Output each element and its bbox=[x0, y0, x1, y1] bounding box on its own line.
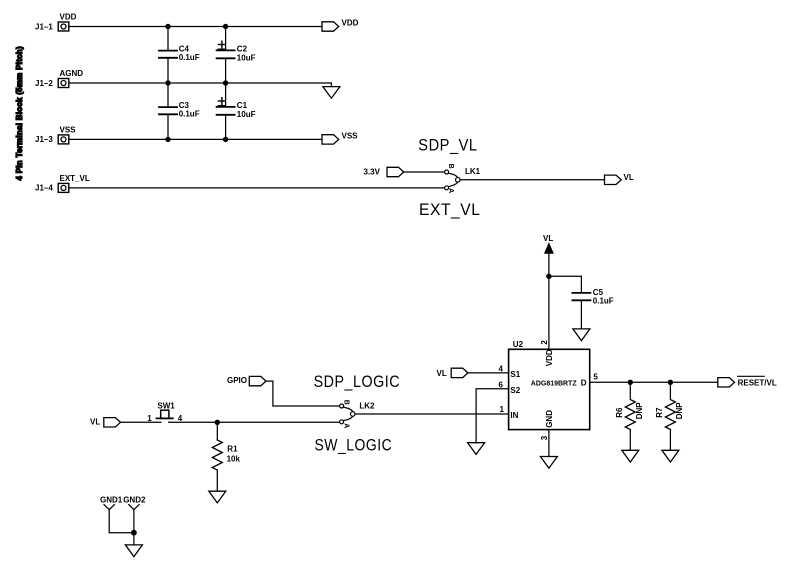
svg-text:DNP: DNP bbox=[635, 402, 644, 420]
junction bbox=[165, 137, 170, 142]
wire LK2 to IN pin bbox=[355, 413, 509, 415]
svg-text:3.3V: 3.3V bbox=[364, 168, 381, 177]
capacitor C1 bbox=[217, 83, 256, 139]
ground R1 bbox=[209, 491, 226, 503]
svg-text:LK1: LK1 bbox=[465, 167, 481, 176]
jumper LK2 bbox=[340, 400, 375, 429]
svg-text:5: 5 bbox=[593, 372, 598, 381]
wire VL to U2 VDD pin bbox=[548, 253, 550, 349]
svg-text:SW1: SW1 bbox=[157, 401, 175, 410]
capacitor C2 bbox=[217, 27, 256, 84]
capacitor C3 bbox=[159, 83, 200, 139]
svg-text:GPIO: GPIO bbox=[227, 376, 247, 385]
wire J1-3 to VSS flag bbox=[69, 138, 322, 140]
resistor R1 bbox=[212, 422, 240, 491]
svg-text:4 Pin Terminal Block (5mm Pitc: 4 Pin Terminal Block (5mm Pitch) bbox=[15, 46, 24, 180]
svg-text:10uF: 10uF bbox=[237, 53, 256, 62]
flag VL input bbox=[451, 368, 468, 377]
svg-text:GND: GND bbox=[545, 410, 554, 428]
wire J1-2 to ground bbox=[69, 83, 332, 87]
resistor R7 bbox=[655, 382, 684, 450]
svg-text:0.1uF: 0.1uF bbox=[179, 110, 200, 119]
svg-text:10uF: 10uF bbox=[237, 110, 256, 119]
svg-text:J1–4: J1–4 bbox=[35, 184, 53, 193]
svg-text:R6: R6 bbox=[615, 407, 624, 418]
resistor R6 bbox=[615, 382, 644, 450]
svg-text:EXT_VL: EXT_VL bbox=[60, 174, 90, 183]
svg-text:A: A bbox=[447, 188, 454, 193]
connector J1-4 bbox=[35, 183, 69, 192]
flag VDD bbox=[322, 18, 359, 31]
junction bbox=[165, 24, 170, 29]
pin 5 D bbox=[581, 372, 599, 387]
svg-text:J1–3: J1–3 bbox=[35, 135, 53, 144]
svg-text:U2: U2 bbox=[513, 340, 524, 349]
svg-text:2: 2 bbox=[540, 340, 549, 345]
svg-text:3: 3 bbox=[540, 435, 549, 440]
ground GND1/GND2 bbox=[125, 545, 142, 557]
svg-text:SDP_VL: SDP_VL bbox=[418, 136, 477, 154]
junction bbox=[546, 274, 551, 279]
junction bbox=[215, 420, 220, 425]
junction bbox=[668, 380, 673, 385]
svg-text:VL: VL bbox=[543, 234, 553, 243]
junction bbox=[165, 80, 170, 85]
wire J1-1 to VDD flag bbox=[69, 26, 322, 28]
wire LK1 to VL flag bbox=[460, 179, 604, 181]
svg-text:VL: VL bbox=[90, 417, 100, 426]
pin 3 GND bbox=[540, 410, 554, 440]
svg-text:LK2: LK2 bbox=[359, 402, 375, 411]
svg-text:VDD: VDD bbox=[545, 349, 554, 366]
svg-text:0.1uF: 0.1uF bbox=[593, 297, 614, 306]
svg-text:VDD: VDD bbox=[342, 18, 359, 27]
junction bbox=[223, 137, 228, 142]
wire J1-4 to LK1 pin A bbox=[69, 187, 445, 189]
svg-text:1: 1 bbox=[500, 405, 505, 414]
flag VL bbox=[605, 173, 634, 184]
svg-text:4: 4 bbox=[499, 364, 504, 373]
svg-text:B: B bbox=[447, 164, 454, 169]
wire D pin to RESET flag bbox=[590, 381, 718, 383]
svg-text:A: A bbox=[342, 423, 349, 428]
pin 4 S1 bbox=[499, 364, 521, 379]
wire GPIO to LK2 pin B bbox=[266, 381, 340, 406]
capacitor C4 bbox=[159, 27, 200, 84]
junction bbox=[628, 380, 633, 385]
capacitor C5 bbox=[572, 288, 613, 329]
wire junction to C5 bbox=[549, 276, 582, 293]
svg-text:S2: S2 bbox=[510, 386, 520, 395]
flag GPIO bbox=[249, 376, 266, 385]
svg-text:VSS: VSS bbox=[342, 131, 359, 140]
svg-text:J1–1: J1–1 bbox=[35, 22, 53, 31]
svg-text:DNP: DNP bbox=[675, 402, 684, 420]
svg-text:R1: R1 bbox=[227, 445, 238, 454]
pin 6 S2 bbox=[499, 380, 521, 395]
junction bbox=[223, 80, 228, 85]
wire SW1 to LK2 pin A bbox=[169, 421, 340, 423]
pin GND2 bbox=[129, 505, 139, 545]
svg-text:GND2: GND2 bbox=[123, 495, 146, 504]
svg-text:0.1uF: 0.1uF bbox=[179, 53, 200, 62]
flag RESET/VL bbox=[718, 376, 777, 387]
svg-text:IN: IN bbox=[510, 411, 518, 420]
svg-text:J1–2: J1–2 bbox=[35, 79, 53, 88]
svg-text:C1: C1 bbox=[237, 101, 248, 110]
ground R7 bbox=[662, 450, 679, 462]
flag 3.3V bbox=[387, 167, 404, 176]
svg-text:10k: 10k bbox=[227, 455, 241, 464]
svg-text:VL: VL bbox=[624, 173, 634, 182]
svg-text:6: 6 bbox=[499, 380, 504, 389]
ground below C5 bbox=[573, 329, 590, 341]
svg-text:VL: VL bbox=[437, 369, 447, 378]
svg-text:GND1: GND1 bbox=[100, 495, 123, 504]
svg-text:ADG819BRTZ: ADG819BRTZ bbox=[531, 378, 577, 387]
ground U2 bbox=[540, 457, 557, 469]
svg-text:D: D bbox=[581, 379, 587, 388]
junction bbox=[223, 24, 228, 29]
wire VL to SW1 bbox=[121, 421, 162, 423]
power VL arrow bbox=[543, 234, 553, 253]
connector J1-1 bbox=[35, 22, 69, 31]
svg-text:AGND: AGND bbox=[60, 69, 84, 78]
ground S2 bbox=[468, 443, 485, 455]
svg-text:EXT_VL: EXT_VL bbox=[419, 201, 481, 219]
wire 3.3V to LK1 pin B bbox=[404, 171, 445, 173]
svg-text:C2: C2 bbox=[237, 45, 248, 54]
ground AGND bbox=[323, 87, 340, 99]
wire U2 GND pin to ground bbox=[548, 430, 550, 457]
switch SW1 bbox=[147, 401, 183, 423]
svg-text:4: 4 bbox=[178, 414, 183, 423]
svg-text:1: 1 bbox=[147, 414, 152, 423]
flag VL input left bbox=[104, 418, 121, 427]
svg-text:RESET/VL: RESET/VL bbox=[738, 378, 777, 387]
pin GND1 bbox=[104, 505, 134, 533]
connector J1-2 bbox=[35, 79, 69, 88]
svg-text:R7: R7 bbox=[655, 407, 664, 418]
wire VL to S1 bbox=[468, 372, 509, 374]
wire S2 to ground bbox=[476, 389, 509, 443]
jumper LK1 bbox=[445, 164, 481, 194]
flag VSS bbox=[322, 131, 358, 144]
svg-text:VSS: VSS bbox=[60, 125, 77, 134]
svg-text:VDD: VDD bbox=[60, 13, 77, 22]
svg-text:SW_LOGIC: SW_LOGIC bbox=[315, 436, 393, 454]
pin 1 IN bbox=[500, 405, 519, 420]
op IC U2 ADG819BRTZ bbox=[509, 340, 590, 429]
junction bbox=[131, 530, 137, 536]
svg-text:SDP_LOGIC: SDP_LOGIC bbox=[314, 373, 401, 391]
connector J1-3 bbox=[35, 135, 69, 144]
pin 2 VDD bbox=[540, 340, 554, 367]
ground R6 bbox=[622, 450, 639, 462]
svg-text:B: B bbox=[342, 400, 349, 405]
svg-text:S1: S1 bbox=[510, 370, 520, 379]
